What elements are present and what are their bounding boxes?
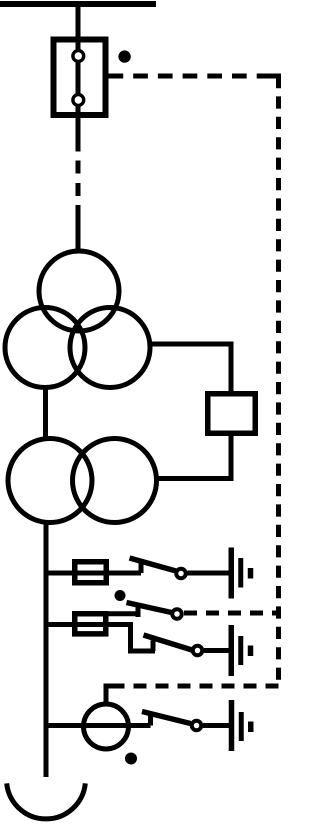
- mechanical linkage dashed right vertical: [276, 76, 281, 686]
- fuse F1: [75, 562, 107, 583]
- interlock dot D3: [125, 753, 137, 765]
- wire branch 1: [46, 571, 141, 576]
- auxiliary switch QS2 blade: [127, 603, 172, 613]
- wire QS1 to ground: [188, 571, 231, 576]
- wire QS3 to ground: [204, 648, 230, 653]
- mechanical linkage corner dash top right: [267, 76, 279, 85]
- interlock dot D1: [118, 50, 130, 62]
- interlock dot D2: [115, 590, 126, 601]
- ground G2 bar middle: [238, 636, 243, 665]
- wire linkage corner to device: [106, 686, 122, 703]
- wire between breaker contacts: [76, 54, 81, 102]
- breaker plug-in contact top: [73, 51, 84, 62]
- resistor R1 box: [208, 394, 256, 434]
- wire to transformer T1: [76, 205, 81, 250]
- wire QS4 to ground: [203, 723, 230, 728]
- transformer T2 secondary winding: [73, 439, 157, 523]
- earthing switch QS4 blade: [142, 712, 191, 724]
- wire branch 3: [46, 723, 151, 728]
- earthing switch QS1 contact: [176, 569, 186, 579]
- auxiliary switch QS2 hinge tick: [136, 606, 141, 618]
- breaker plug-in contact bottom: [73, 95, 84, 106]
- device M1 circle: [84, 704, 129, 749]
- circuit breaker Q1 withdrawable truck box: [54, 40, 106, 116]
- earthing switch QS1 blade: [130, 558, 177, 571]
- wire branch 2: [46, 625, 155, 652]
- auxiliary switch QS2 contact: [172, 609, 182, 619]
- ground G2 bar long: [229, 625, 235, 676]
- earthing switch QS4 hinge tick: [148, 714, 153, 726]
- ground G3 bar short: [248, 722, 254, 733]
- mechanical linkage dashed row to right line: [184, 611, 279, 616]
- earthing switch QS3 hinge tick: [151, 641, 156, 652]
- mechanical linkage dashed bottom horizontal: [122, 684, 279, 689]
- wire busbar to breaker: [76, 4, 81, 54]
- earthing switch QS1 hinge tick: [139, 563, 144, 573]
- earthing switch QS3 contact: [193, 646, 203, 656]
- earthing switch QS4 contact: [192, 721, 202, 731]
- ground G1 bar middle: [238, 558, 243, 588]
- wire T1 secondary down to T2: [43, 389, 48, 438]
- ground G3 bar middle: [239, 712, 244, 741]
- wire resistor to T2 secondary: [157, 434, 231, 479]
- busbar: [0, 1, 156, 7]
- fuse F2 striker link wire: [106, 611, 140, 616]
- transformer T1 primary winding: [39, 251, 119, 331]
- ground G3 bar long: [229, 700, 235, 751]
- fuse F2: [75, 614, 106, 634]
- wire T1 tertiary to resistor: [150, 344, 231, 393]
- ground G1 bar long: [229, 548, 235, 599]
- cable end arc: [7, 783, 86, 819]
- transformer T1 tertiary winding: [70, 308, 150, 388]
- mechanical linkage dashed top horizontal: [109, 74, 279, 79]
- wire breaker bottom exit: [76, 102, 81, 152]
- transformer T1 secondary winding: [5, 308, 85, 388]
- ground G2 bar short: [248, 646, 254, 657]
- dashed wire below breaker: [76, 161, 81, 197]
- main feeder wire down: [44, 523, 49, 777]
- earthing switch QS3 blade: [144, 635, 193, 650]
- ground G1 bar short: [248, 568, 254, 579]
- transformer T2 primary winding: [8, 439, 92, 523]
